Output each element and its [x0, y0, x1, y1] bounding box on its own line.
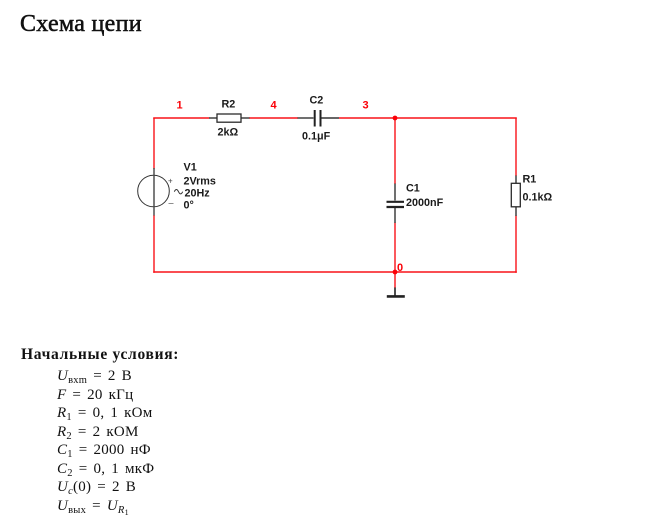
wire: top segment node 1 (source to R2): [153, 117, 209, 119]
svg-text:0.1μF: 0.1μF: [302, 131, 331, 143]
resistor R2: [209, 99, 250, 139]
wire: left vertical upper (node 1): [153, 118, 155, 169]
svg-text:V1: V1: [184, 162, 197, 174]
wire: bottom horizontal (node 0): [153, 271, 517, 273]
voltage source V1: [138, 162, 216, 216]
svg-text:20Hz: 20Hz: [185, 188, 211, 200]
wire: right vertical upper: [515, 118, 517, 176]
svg-text:2kΩ: 2kΩ: [218, 127, 239, 139]
svg-text:C1: C1: [406, 183, 420, 195]
wire: middle vertical lower (C1 to node 0): [394, 223, 396, 273]
resistor R1: [511, 174, 552, 217]
svg-text:C2: C2: [310, 95, 324, 107]
svg-text:0: 0: [397, 262, 403, 274]
svg-text:2000nF: 2000nF: [406, 197, 444, 209]
svg-text:–: –: [169, 198, 174, 208]
ground: [387, 288, 405, 297]
wire: middle vertical upper (node 3 to C1): [394, 118, 396, 184]
capacitor C1: [387, 183, 444, 224]
svg-text:3: 3: [363, 100, 369, 112]
wire: ground drop: [394, 272, 396, 288]
node 3 label: [363, 100, 369, 112]
wire: left vertical lower: [153, 215, 155, 273]
node 4 label: [271, 100, 278, 112]
node 0 label: [397, 262, 403, 274]
svg-text:0.1kΩ: 0.1kΩ: [523, 192, 553, 204]
svg-text:4: 4: [271, 100, 278, 112]
svg-text:1: 1: [177, 100, 183, 112]
wire: right vertical lower: [515, 216, 517, 273]
wire: top segment node 3 (C2 to right corner): [339, 117, 517, 119]
capacitor C2: [298, 95, 340, 143]
svg-text:0°: 0°: [184, 200, 194, 212]
svg-text:R2: R2: [222, 99, 236, 111]
svg-text:R1: R1: [523, 174, 537, 186]
svg-text:2Vrms: 2Vrms: [184, 176, 216, 188]
node 1 label: [177, 100, 183, 112]
node 0 junction dot: [393, 270, 398, 275]
node 3 junction dot: [393, 116, 398, 121]
svg-text:+: +: [168, 177, 173, 186]
wire: top segment node 4 (R2 to C2): [249, 117, 298, 119]
